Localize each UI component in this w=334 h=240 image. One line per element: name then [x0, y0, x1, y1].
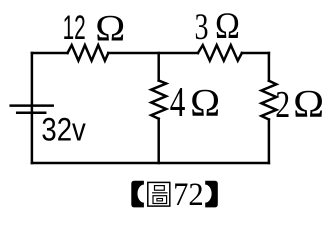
resistor 2ohm (right branch, vertical zigzag): [261, 81, 276, 120]
svg-text:Ω: Ω: [215, 6, 240, 47]
svg-text:Ω: Ω: [95, 9, 125, 50]
svg-text:Ω: Ω: [190, 81, 220, 125]
resistor 3ohm (top-right, horizontal zigzag): [198, 45, 242, 61]
svg-text:2: 2: [275, 84, 290, 126]
wire top-middle (node between 12ohm and 3ohm, junction to middle branch): [108, 52, 198, 55]
battery 32v short plate (negative terminal): [17, 112, 45, 115]
wire left branch (through battery): [31, 53, 34, 163]
wire middle branch lower stub: [157, 119, 160, 163]
wire top-right (3ohm to right branch corner): [242, 52, 269, 55]
svg-text:12: 12: [63, 9, 86, 47]
resistor 4ohm (middle branch, vertical zigzag): [151, 81, 166, 119]
wire middle branch upper stub: [157, 53, 160, 81]
wire right branch upper stub: [268, 53, 271, 81]
wire top-left (battery + to resistor 12ohm): [32, 52, 68, 55]
svg-text:3: 3: [195, 7, 209, 48]
svg-text:Ω: Ω: [293, 81, 324, 125]
svg-text:4: 4: [170, 80, 186, 126]
svg-text:72: 72: [173, 176, 204, 213]
caption CJK character "tu" (figure) drawn as strokes: [148, 182, 170, 206]
wire bottom (return path): [32, 162, 269, 165]
resistor 12ohm (top-left, horizontal zigzag): [68, 45, 109, 61]
caption right lenticular bracket: [205, 181, 218, 208]
caption left lenticular bracket: [131, 181, 144, 208]
wire right branch lower stub: [268, 120, 271, 164]
battery 32v long plate (positive terminal): [11, 104, 53, 107]
svg-text:32v: 32v: [41, 110, 86, 147]
